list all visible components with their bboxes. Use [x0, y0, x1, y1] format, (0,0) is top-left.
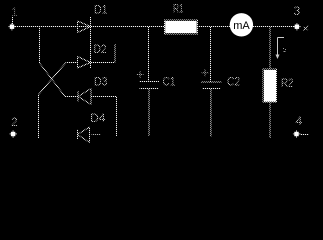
svg-text:mA: mA [233, 20, 250, 32]
current arrow subscript [283, 48, 286, 52]
faint halo underlay [11, 2, 309, 143]
terminal 3 [293, 23, 301, 31]
dotted artwork [11, 2, 309, 143]
terminal 1 [8, 23, 16, 31]
current arrow near R2 [276, 38, 287, 60]
meter mA circle [230, 13, 253, 36]
resistor R1 white body [165, 21, 197, 33]
resistor R2 white body [264, 70, 276, 102]
terminal 2 [10, 130, 18, 138]
terminal 4 [293, 130, 301, 138]
